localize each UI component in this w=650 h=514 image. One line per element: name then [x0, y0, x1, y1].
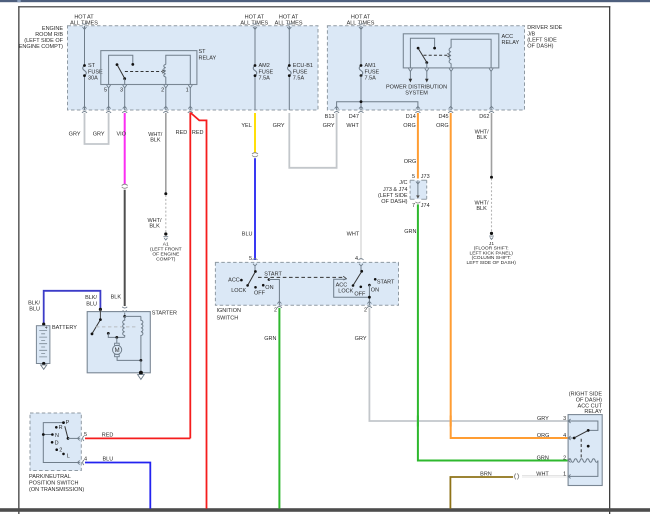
ACC CUT blade pivot: [573, 437, 576, 440]
starter contact to motor path: [108, 333, 124, 337]
top window bar: [0, 0, 650, 2]
ignition right ON contact: [368, 284, 371, 287]
svg-text:M: M: [115, 348, 120, 354]
ACC relay arrow to power distribution left: [409, 71, 411, 79]
ST relay mech link dashed: [125, 71, 163, 73]
ST relay pin wires to box edge: [109, 88, 191, 110]
svg-text:4: 4: [355, 256, 358, 262]
ignition right blade contact: [352, 284, 355, 287]
PNP N tap: [43, 434, 52, 436]
svg-text:OFF: OFF: [354, 291, 366, 297]
wire WHT/BLK dashed to ground: [165, 195, 167, 234]
battery ground: [42, 362, 45, 365]
ACC relay coil: [449, 48, 451, 64]
ignition mech link dashed: [258, 276, 344, 278]
ignition right ACC LOCK box: [334, 279, 370, 297]
svg-text:GRY: GRY: [93, 132, 105, 138]
fuse AM2 7.5A: [253, 66, 257, 76]
svg-text:ORG: ORG: [404, 159, 417, 165]
ignition right pivot: [360, 270, 363, 273]
ACC CUT pin chevrons: [568, 419, 570, 478]
connector ignition pin4 top: [359, 259, 364, 267]
svg-text:GRN: GRN: [404, 229, 416, 235]
junction dot starter terminal: [99, 308, 102, 311]
ignition left ON contact: [262, 284, 265, 287]
frame right border: [609, 6, 610, 514]
svg-text:BRN: BRN: [480, 471, 492, 477]
starter switch wire: [99, 309, 101, 319]
svg-text:L: L: [67, 454, 70, 460]
ignition right blade: [353, 272, 361, 285]
ST relay coil inner box: [166, 55, 191, 84]
PNP R contact: [55, 426, 58, 429]
svg-text:VIO: VIO: [117, 132, 127, 138]
svg-text:RED: RED: [192, 130, 204, 136]
wire ECU-B1 fuse column: [288, 26, 290, 110]
junction AM1 bus: [360, 100, 363, 103]
svg-text:D62: D62: [479, 114, 489, 120]
top bar light segment: [17, 0, 20, 2]
junction dot WHT/BLK: [164, 192, 167, 195]
connector PNP pin4: [78, 460, 84, 465]
connector box1 bottom VIO/pin3: [122, 106, 127, 112]
J/C internal wire with arrows: [417, 180, 419, 196]
ACC relay pin wires to D45 D62: [451, 71, 491, 110]
wire ORG overlay at GRY crossing: [450, 416, 452, 427]
connector box1 bottom RED/pin1: [188, 106, 193, 112]
DRIVER SIDE J/B box: [327, 26, 524, 110]
connector at box2 top (AM1): [359, 23, 364, 29]
ignition left switch feed wire: [254, 266, 256, 271]
svg-text:ORG: ORG: [537, 433, 550, 439]
motor M: [113, 345, 122, 354]
ST relay blade pivot: [116, 63, 119, 66]
ignition left OFF contact: [254, 286, 257, 289]
PNP output wire to pin5: [68, 437, 80, 439]
connector J/C bottom: [415, 202, 420, 203]
svg-text:BLK/BLU: BLK/BLU: [28, 300, 40, 312]
junction dot coils feed: [123, 315, 126, 318]
inline connector BRN to WHT: [515, 473, 519, 479]
wire ORG D14 to J/C: [417, 113, 419, 179]
connector box1 bottom GRY1: [82, 106, 87, 112]
relay ACC CUT RELAY box: [568, 415, 602, 486]
ignition left START contact: [268, 278, 271, 281]
ignition left pivot: [254, 270, 257, 273]
connector box1 bottom GRY2/pin5: [106, 106, 111, 112]
svg-text:BATTERY: BATTERY: [52, 325, 77, 331]
wire BLK to starter: [124, 190, 126, 306]
motor brush top: [115, 343, 120, 345]
wire WHT/BLK pin2: [165, 113, 167, 194]
ground A1: [164, 232, 167, 235]
PNP P contact: [62, 421, 65, 424]
starter switch pivot: [99, 318, 102, 321]
starter pull-in coil: [123, 316, 125, 337]
ACC CUT mech link dashed: [580, 439, 582, 459]
svg-text:5: 5: [249, 256, 252, 262]
svg-text:BLU: BLU: [242, 231, 253, 237]
PARK/NEUTRAL POSITION SWITCH box: [30, 413, 81, 471]
wire BLU PNP pin4: [85, 463, 150, 509]
svg-text:BLK/BLU: BLK/BLU: [85, 295, 97, 307]
svg-text:ACC: ACC: [228, 278, 240, 284]
svg-text:STARTER: STARTER: [152, 311, 177, 317]
ST relay fixed contact: [131, 63, 134, 66]
connector box2 bottom B13: [334, 106, 339, 112]
fuse ST 30A: [83, 66, 87, 76]
ST relay blade: [117, 65, 124, 78]
ST relay pin chevrons: [107, 85, 193, 88]
svg-text:YEL: YEL: [241, 123, 251, 129]
junction dot battery terminal: [42, 323, 45, 326]
ignition right output junction: [368, 296, 371, 299]
connector box2 bottom D47: [359, 106, 364, 112]
starter ground wire: [140, 360, 142, 372]
svg-text:P: P: [66, 420, 70, 426]
wire RED pin1 vertical to PNP: [189, 113, 191, 439]
IGNITION SWITCH box: [215, 262, 398, 305]
wire ST fuse column: [84, 26, 86, 110]
wire WHT ACC CUT pin1: [522, 475, 568, 477]
starter hold-in coil: [141, 316, 143, 360]
PNP blade: [65, 426, 68, 438]
svg-text:4: 4: [84, 456, 87, 462]
svg-text:START: START: [264, 271, 282, 277]
svg-text:WHT/BLK: WHT/BLK: [474, 201, 489, 213]
svg-text:J74: J74: [421, 203, 430, 209]
ACC relay blade pivot: [417, 47, 420, 50]
starter mech link dashed: [96, 326, 138, 328]
ACC CUT spare contact: [587, 445, 590, 448]
wire VIO pin3: [124, 113, 126, 184]
svg-text:GRN: GRN: [537, 455, 549, 461]
wire GRY from ignition pin2 to ACC CUT pin3: [369, 308, 567, 421]
starter STARTER box: [87, 312, 150, 373]
frame left border: [18, 6, 19, 514]
J/B AM1 to D47 wire: [360, 76, 362, 110]
wire AM2 fuse column: [254, 26, 256, 110]
wire WHT D47 to ignition pin4: [360, 113, 362, 260]
wire RED PNP pin5: [85, 437, 190, 439]
relay ST RELAY box: [101, 51, 197, 85]
wire GRN overlay at GRY crossing: [417, 416, 419, 427]
svg-text:2: 2: [364, 308, 367, 314]
svg-text:BLK: BLK: [111, 295, 122, 301]
ACC CUT pin4 internal wire: [568, 437, 574, 439]
PNP N contact: [51, 433, 54, 436]
svg-text:START: START: [377, 279, 395, 285]
ACC relay coil inner box: [451, 39, 491, 68]
wire GRY U under ST fuse: [85, 113, 109, 144]
starter BLK feed wire: [124, 313, 126, 317]
svg-text:GRY: GRY: [273, 123, 285, 129]
junction dot motor tap: [115, 336, 118, 339]
svg-text:5: 5: [412, 174, 415, 180]
svg-text:GRY: GRY: [355, 336, 367, 342]
motor brush bottom: [115, 354, 120, 356]
svg-text:N: N: [55, 433, 59, 439]
ACC relay fixed contact: [433, 47, 436, 50]
svg-text:RED: RED: [176, 130, 188, 136]
J/B internal bus: [337, 102, 418, 110]
ground J1: [490, 232, 493, 235]
svg-text:7: 7: [412, 203, 415, 209]
connector box2 bottom D62: [489, 106, 494, 112]
wire WHT/BLK D62: [491, 113, 493, 177]
connector at box1 top (AM2): [253, 23, 258, 29]
ST relay pin5 internal path: [109, 55, 133, 84]
wire GRN from ignition pin2: [278, 308, 280, 509]
inline connector YEL to BLU: [252, 153, 258, 157]
starter blade contact: [91, 333, 94, 336]
svg-text:OFF: OFF: [254, 291, 266, 297]
inline connector VIO to BLK: [122, 184, 128, 188]
wire RED jog to second column: [190, 113, 206, 509]
PNP internal frame path: [43, 423, 80, 463]
svg-text:GRN: GRN: [264, 336, 276, 342]
J/C box: [410, 180, 427, 199]
svg-text:LOCK: LOCK: [231, 288, 246, 294]
ACC relay mech link dashed: [424, 54, 449, 56]
starter fixed contact: [107, 332, 110, 335]
svg-text:GRY: GRY: [69, 132, 81, 138]
svg-text:BLU: BLU: [103, 457, 114, 463]
svg-text:2: 2: [59, 448, 62, 454]
ignition right switch feed wire: [360, 266, 362, 271]
svg-text:WHT/BLK: WHT/BLK: [147, 218, 162, 230]
connector starter BLK entry: [122, 307, 127, 313]
svg-text:J73: J73: [421, 174, 430, 180]
svg-text:R: R: [59, 425, 63, 431]
svg-text:ON: ON: [371, 288, 379, 294]
PNP D contact: [51, 441, 54, 444]
ACC relay pin1 internal path: [410, 38, 434, 68]
PNP L contact: [62, 453, 65, 456]
ACC CUT blade: [575, 431, 588, 438]
PNP 2 contact: [55, 448, 58, 451]
bottom border band: [0, 508, 650, 512]
wire BLK/BLU battery to starter: [44, 291, 101, 324]
ACC CUT pin3 internal path: [568, 421, 598, 430]
svg-text:WHT/BLK: WHT/BLK: [148, 132, 163, 144]
junction dot D62: [490, 176, 493, 179]
svg-text:+: +: [45, 326, 48, 332]
svg-text:D: D: [55, 440, 59, 446]
svg-text:RED: RED: [102, 432, 114, 438]
svg-text:WHT/BLK: WHT/BLK: [475, 130, 490, 142]
ACC CUT coil: [568, 459, 598, 462]
starter switch blade: [92, 320, 100, 333]
junction dot motor return: [140, 359, 143, 362]
motor return wire: [117, 357, 141, 361]
svg-text:5: 5: [84, 432, 87, 438]
frame top border: [18, 6, 610, 7]
connector ignition pin2 left bottom: [277, 301, 282, 307]
connector PNP pin5: [78, 436, 84, 441]
connector ignition pin5 top: [253, 259, 258, 267]
connector at box1 top (ST): [82, 23, 87, 29]
ignition left LOCK contact: [246, 284, 249, 287]
ST relay blade contact to pin3: [123, 77, 126, 80]
ACC relay pin chevrons: [408, 68, 493, 71]
connector at box1 top (ECU-B1): [287, 23, 292, 29]
ignition right output wire: [368, 285, 370, 305]
wire ORG D45 to ACC CUT relay pin4: [451, 113, 568, 438]
ACC CUT fixed contact: [587, 429, 590, 432]
ignition right OFF contact: [360, 286, 363, 289]
svg-text:GRY: GRY: [537, 416, 549, 422]
ACC relay blade: [419, 49, 427, 63]
fuse ECU-B1 7.5A: [288, 66, 292, 76]
ignition left ACC contact: [240, 279, 243, 282]
svg-text:ON: ON: [265, 285, 273, 291]
svg-text:2: 2: [274, 308, 277, 314]
connector box1 bottom WHTBLK/pin2: [163, 106, 168, 112]
motor M feed wire: [116, 337, 118, 343]
battery BATTERY: [36, 326, 50, 364]
wire YEL from AM2: [254, 113, 256, 153]
ignition left output wire: [269, 280, 280, 306]
svg-text:IGNITIONSWITCH: IGNITIONSWITCH: [217, 308, 241, 321]
fuse AM1 7.5A: [359, 66, 363, 76]
relay ACC RELAY box: [403, 34, 499, 68]
wire WHT/BLK D62 dashed to ground: [491, 179, 493, 234]
ACC relay blade contact to pin2: [425, 61, 428, 64]
ACC relay arrow to power distribution right: [426, 71, 428, 79]
starter ground: [139, 371, 143, 375]
wire AM1 fuse column: [360, 26, 362, 110]
wire BLU to ignition pin5: [254, 158, 256, 260]
connector ignition pin2 right bottom: [367, 301, 372, 307]
ignition left blade: [248, 272, 255, 285]
svg-text:WHT: WHT: [347, 231, 360, 237]
ST relay coil: [164, 65, 166, 77]
connector box2 bottom D14: [415, 106, 420, 112]
wire BRN: [450, 477, 513, 509]
wire GRY U ECU-B1 to B13: [289, 113, 336, 168]
wire GRN J/C to ACC CUT relay pin2: [418, 204, 568, 460]
ACC CUT pin1 internal path: [568, 461, 598, 477]
starter coil bridge wire: [125, 315, 141, 317]
connector box2 bottom D45: [448, 106, 453, 112]
ENGINE ROOM R/B box: [68, 26, 319, 110]
ignition right START contact: [374, 278, 377, 281]
